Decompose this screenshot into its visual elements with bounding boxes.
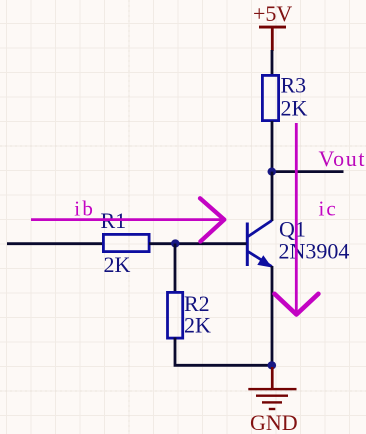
- resistor R3: [262, 75, 278, 120]
- node Vout junction: [268, 168, 277, 176]
- svg-text:2K: 2K: [184, 312, 211, 337]
- transistor Q1: [247, 221, 272, 268]
- svg-text:Vout: Vout: [319, 146, 366, 171]
- node base junction: [171, 239, 180, 247]
- svg-text:2K: 2K: [104, 252, 131, 277]
- node emitter junction: [268, 361, 277, 369]
- wire R2 to ground rail: [175, 338, 272, 366]
- resistor R2: [168, 292, 183, 338]
- wire node to Q1 collector: [271, 172, 274, 221]
- current arrow ib: [31, 198, 225, 241]
- wire Q1 emitter down: [271, 266, 274, 366]
- wire base node down to R2: [174, 244, 177, 294]
- wire base input: [7, 242, 104, 245]
- ground: [248, 367, 296, 410]
- power +5V: [259, 26, 286, 51]
- svg-text:R3: R3: [281, 72, 307, 97]
- current arrow ic: [275, 123, 319, 314]
- svg-text:2K: 2K: [281, 96, 308, 121]
- wire R1 to Q1 base: [149, 242, 247, 245]
- svg-text:+5V: +5V: [253, 1, 292, 26]
- svg-text:ib: ib: [74, 197, 95, 221]
- svg-text:ic: ic: [319, 197, 338, 221]
- svg-text:2N3904: 2N3904: [279, 239, 350, 264]
- wire R3 to node Vout: [271, 121, 274, 172]
- wire node to Vout terminal: [271, 170, 344, 173]
- wire +5V to R3: [271, 50, 274, 76]
- svg-text:GND: GND: [250, 410, 298, 434]
- resistor R1: [103, 234, 149, 251]
